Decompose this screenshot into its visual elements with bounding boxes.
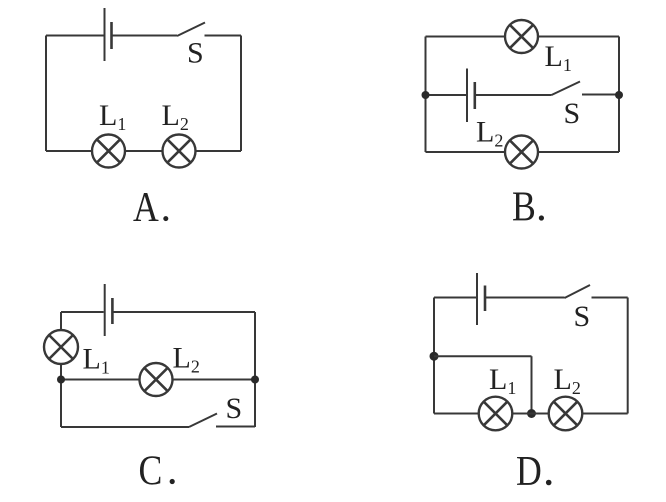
wire A bottom segment (L1 to L2) [125,150,163,152]
wire C top segment (left corner to battery) [61,311,104,313]
wire A bottom segment (L2 to right corner) [196,150,242,152]
switch S blade (circuit A, open) [177,23,205,37]
lamp L1 (circuit C) [44,330,78,364]
wire C middle segment (L2 to right node) [173,379,256,381]
svg-text:L2: L2 [173,342,200,377]
svg-text:D: D [516,449,542,495]
wire D branch vertical (down to bottom wire) [531,356,533,413]
svg-text:L1: L1 [545,40,572,75]
svg-text:A: A [133,184,159,230]
lamp L2 (circuit A) [163,135,196,168]
svg-text:B: B [512,184,536,230]
svg-text:L1: L1 [83,343,110,378]
wire A right vertical [240,36,242,152]
wire B middle segment (switch to right node) [582,94,619,96]
svg-text:S: S [574,300,591,333]
wire B bottom segment (left to L2) [426,151,506,153]
wire A bottom segment (left corner to L1) [46,150,92,152]
answer label C period dot [170,479,175,484]
wire A top segment (switch to right corner) [205,35,242,37]
battery B long plate [466,69,468,123]
svg-text:S: S [564,97,581,130]
battery A long plate [104,8,106,61]
switch S blade (circuit D, open) [565,285,591,298]
wire C right vertical [254,312,256,427]
wire B bottom segment (L2 to right) [538,151,619,153]
wire A top segment (battery to switch) [113,35,178,37]
junction node on bottom wire (circuit D) [527,409,536,418]
wire D top segment (battery to switch) [486,297,565,299]
wire C left vertical (top corner to L1) [60,312,62,331]
lamp L2 (circuit D) [549,397,583,431]
battery C short plate [111,298,114,324]
junction node right (circuit C) [251,376,259,384]
wire C bottom segment (switch to right corner) [216,426,255,428]
junction node on left wire (circuit D) [430,352,439,361]
wire B top segment (left to L1) [426,36,506,38]
wire C bottom segment (left corner to switch) [61,426,189,428]
wire D bottom segment (L1 to L2) [513,413,549,415]
svg-text:S: S [226,392,243,425]
svg-text:C: C [139,448,163,494]
switch S blade (circuit B, open) [552,82,581,96]
svg-text:L2: L2 [554,363,581,398]
junction node left (circuit C) [57,376,65,384]
wire C top segment (battery to right corner) [113,311,255,313]
wire D left vertical [433,298,435,414]
wire D right vertical [627,298,629,414]
svg-text:L2: L2 [162,99,189,134]
wire B middle segment (battery to switch) [476,94,552,96]
battery A short plate [110,22,113,49]
wire C middle segment (left node to L2) [61,379,139,381]
wire B top segment (L1 to right) [538,36,619,38]
wire D top segment (switch to right corner) [592,297,628,299]
wire D branch horizontal (node to above L1-L2 midpoint) [434,355,532,357]
answer label D period dot [546,480,552,486]
battery C long plate [104,284,106,336]
wire C left vertical (L1 to bottom corner) [60,364,62,428]
battery D long plate [476,273,478,325]
wire B middle segment (left node to battery) [426,94,467,96]
lamp L1 (circuit D) [479,397,513,431]
wire D bottom segment (L2 to right corner) [582,413,627,415]
answer label B period dot [539,215,544,220]
battery B short plate [473,82,476,109]
svg-text:L1: L1 [489,363,516,398]
lamp L1 (circuit A) [92,135,125,168]
wire D top segment (left corner to battery) [434,297,476,299]
svg-text:S: S [187,37,204,70]
junction node right (circuit B) [615,91,623,99]
svg-text:L1: L1 [99,99,126,134]
lamp L1 (circuit B) [505,20,538,53]
wire B left vertical [425,37,427,153]
answer label A period dot [163,216,168,221]
svg-text:L2: L2 [476,116,503,151]
battery D short plate [484,286,487,312]
switch S blade (circuit C, open) [189,414,217,428]
wire D bottom segment (left corner to L1) [434,413,479,415]
junction node left (circuit B) [422,91,430,99]
lamp L2 (circuit C) [140,363,173,396]
wire A left vertical [45,36,47,152]
lamp L2 (circuit B) [505,136,538,169]
wire A top segment (left corner to battery) [46,35,104,37]
wire B right vertical [618,37,620,153]
